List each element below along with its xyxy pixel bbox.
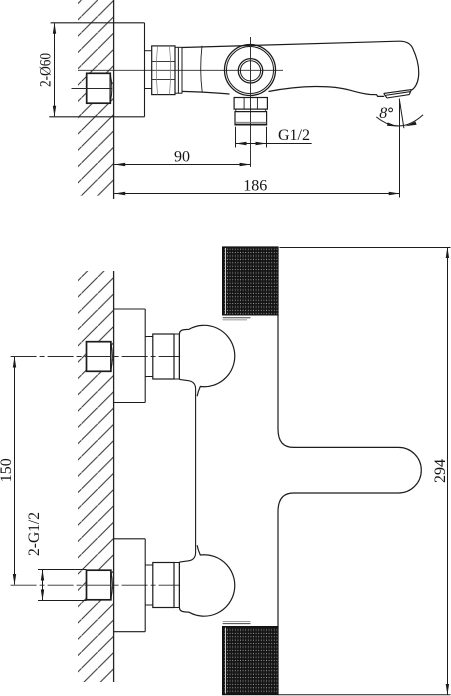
dimension 186 (wall to spout tip) [114,178,400,196]
shower outlet hex nut [234,98,267,110]
svg-text:150: 150 [0,458,15,482]
upper inlet square [87,342,113,372]
spout underside [269,86,385,96]
wall face edge (top view) [113,0,115,199]
wall hatching (plan view) [78,271,114,682]
dimension 150 (inlet spacing) [0,357,16,586]
wall hatching (top view) [78,0,114,196]
upper handle skirt lines [223,317,251,319]
svg-text:186: 186 [243,178,267,195]
8 deg direction line [399,99,404,129]
body taper curve [201,46,202,92]
upper knurled handle [223,247,278,315]
svg-text:8: 8 [379,105,387,122]
dimension 90 (wall to outlet axis) [114,149,250,167]
lower inlet square [87,570,113,600]
dimension 2-O60 (plate diameter) [38,23,57,117]
lower inlet centerline [11,584,180,586]
lower knurled handle [223,627,278,695]
upper dome boss [179,325,234,396]
cap inner circle [238,59,262,83]
lower dome boss [179,545,234,616]
dimension 2-G1/2 (inlet threads) [26,512,87,600]
body right outline with spout finger (plan) [278,315,421,627]
washer ring [175,47,182,93]
svg-text:294: 294 [432,459,449,483]
extension line from spout tip (vertical) [399,100,401,198]
body waist tube (plan) [179,379,195,562]
upper connector stub [145,337,153,377]
outlet washer [236,109,266,112]
outlet threaded pipe G1/2 [235,112,267,125]
wall face edge (plan view) [113,271,115,682]
upper escutcheon plate (plan) [114,309,146,403]
8 deg angle arc with arrows [376,115,423,126]
upper inlet centerline [11,356,180,358]
G1/2 dimension (outlet thread) [236,127,312,148]
lower hex nut and washer (plan) [153,563,180,608]
lower connector stub [145,565,153,605]
svg-text:G1/2: G1/2 [278,127,310,144]
inlet union square (side view) [87,73,112,103]
aerator tip (8 deg slant) [384,90,412,98]
svg-text:2-Ø60: 2-Ø60 [38,53,55,87]
inlet union centerline [72,88,112,90]
vertical centerline of outlet [250,37,252,167]
hex nut (side view) [152,46,175,95]
faucet body bottom edge [182,91,230,94]
wall escutcheon plate (side view) [49,23,144,117]
dimension 294 (overall height) [278,247,451,695]
svg-text:2-G1/2: 2-G1/2 [26,512,43,556]
cartridge cap circle (outer ring) [225,45,276,96]
main body centerline [78,69,283,71]
svg-text:90: 90 [174,149,190,166]
lower escutcheon plate (plan) [114,539,146,632]
faucet body top edge and spout outline [182,41,419,90]
connector stub behind plate [145,51,152,89]
upper hex nut and washer (plan) [153,334,180,379]
lower handle skirt lines [223,620,251,622]
